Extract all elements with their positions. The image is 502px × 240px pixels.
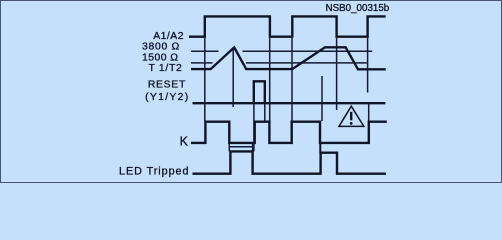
warning triangle outline xyxy=(339,106,364,126)
svg-text:K: K xyxy=(180,134,189,148)
ladder rung between K base and LED top xyxy=(229,146,252,148)
svg-text:3800 Ω: 3800 Ω xyxy=(142,42,180,53)
signal A1/A2 waveform xyxy=(189,16,386,36)
signal K waveform xyxy=(191,122,387,143)
warning triangle exclamation bar xyxy=(350,112,352,121)
tick at x269.7 supply-off alignment xyxy=(269,38,271,121)
svg-text:1500 Ω: 1500 Ω xyxy=(142,52,178,63)
tick at x233.2 trip point alignment xyxy=(232,49,234,107)
ladder right vertical LED fall1 extension xyxy=(252,143,254,152)
tick at x253.9 reset rise extension xyxy=(253,103,255,151)
tick at x367.6 supply-on alignment upper xyxy=(367,38,369,93)
svg-text:A1/A2: A1/A2 xyxy=(153,31,184,42)
outer frame border xyxy=(1,1,502,183)
svg-text:T 1/T2: T 1/T2 xyxy=(148,63,182,74)
tick at x322 trip2 alignment xyxy=(321,76,323,121)
connector K fall3 to LED rise2 xyxy=(319,143,321,153)
tick at x204.8 supply-on alignment xyxy=(204,38,206,121)
tick at x336.6 supply-off alignment xyxy=(336,38,338,110)
tick at x368.7 supply-on alignment lower xyxy=(368,104,370,122)
svg-text:(Y1/Y2): (Y1/Y2) xyxy=(145,92,189,103)
tick at x264.8 reset fall extension xyxy=(264,103,266,121)
warning triangle exclamation dot xyxy=(350,122,353,125)
grid line 1500 ohm threshold xyxy=(191,62,367,64)
tick at x292 supply-on alignment xyxy=(291,38,293,121)
signal LED Tripped waveform xyxy=(193,151,387,173)
svg-text:NSB0_00315b: NSB0_00315b xyxy=(326,3,390,14)
ladder left vertical K fall1 extension xyxy=(228,143,230,152)
svg-text:LED Tripped: LED Tripped xyxy=(119,165,189,177)
signal RESET pulse xyxy=(254,81,265,103)
signal RESET baseline xyxy=(193,102,386,104)
signal T1/T2 resistance waveform xyxy=(191,47,386,69)
grid line 3800 ohm threshold xyxy=(191,50,372,52)
svg-text:RESET: RESET xyxy=(148,80,186,91)
